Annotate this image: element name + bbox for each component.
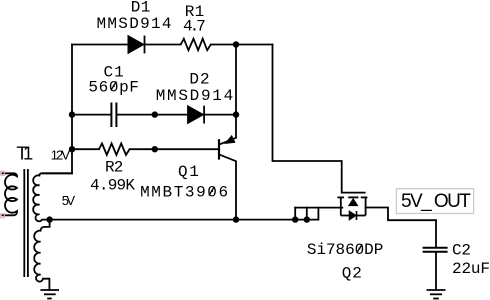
- svg-text:MMSD914: MMSD914: [97, 15, 172, 33]
- T1 primary winding: [2, 173, 18, 215]
- svg-text:22uF: 22uF: [452, 260, 490, 278]
- wire C1 row left: [72, 114, 110, 116]
- capacitor C1 right plate: [115, 103, 117, 128]
- resistor R2: [99, 144, 130, 155]
- wire Q1 collector: [220, 155, 236, 220]
- wire Q1 emitter: [220, 115, 236, 145]
- Q2 channel segment body: [348, 196, 358, 198]
- ground at transformer bar 1: [40, 289, 59, 291]
- T1 primary pin square top: [0, 171, 4, 175]
- diode D2: [188, 106, 205, 124]
- svg-text:4.99K: 4.99K: [90, 176, 135, 194]
- wire source stub 1: [294, 208, 296, 220]
- wire source line: [295, 207, 342, 209]
- wire top rail right segment: [211, 44, 273, 46]
- svg-text:Si7860DP: Si7860DP: [307, 241, 383, 259]
- Q2 body diode line left: [341, 215, 350, 217]
- Q2 gate plate: [342, 192, 366, 194]
- ground at C2 bar 2: [430, 293, 442, 295]
- wire top rail corner down to gate: [273, 45, 342, 193]
- svg-text:560pF: 560pF: [88, 78, 138, 96]
- wire 5V rail: [50, 208, 319, 220]
- capacitor C1 left plate: [110, 103, 112, 128]
- Q2 source leg: [340, 197, 342, 215]
- Q2 substrate arrow: [349, 199, 358, 206]
- wire source stub 2: [306, 208, 308, 220]
- svg-text:C2: C2: [452, 242, 471, 260]
- node dot center tap: [46, 216, 52, 222]
- wire drain to output: [366, 208, 436, 221]
- Q2 body diode: [349, 211, 356, 220]
- wire D2 row: [155, 114, 236, 116]
- node dot R2 right: [152, 146, 158, 152]
- node dot C1 right: [152, 111, 158, 117]
- node dot 12V R2 row left: [69, 146, 75, 152]
- node dot D2 cathode: [233, 111, 239, 117]
- ground at C2 bar 1: [427, 289, 446, 291]
- label box 5V_OUT: [396, 189, 473, 214]
- Q2 body diode line right: [356, 215, 365, 217]
- svg-text:D2: D2: [189, 70, 209, 88]
- diode D1: [128, 36, 145, 54]
- T1 core line left: [23, 169, 25, 277]
- node dot source stub 1: [292, 216, 298, 222]
- wire C1 row right: [117, 114, 155, 116]
- wire C2 to ground: [435, 252, 437, 289]
- T1 secondary lower winding with center tap jog: [34, 220, 49, 282]
- ground at C2 bar 3: [433, 298, 439, 300]
- capacitor C2 top plate: [423, 247, 448, 249]
- wire top rail left segment: [72, 44, 181, 46]
- svg-text:4.7: 4.7: [183, 18, 206, 36]
- wire R2 row right to Q1 base: [130, 148, 219, 150]
- wire left vertical node 12V: [71, 45, 73, 174]
- wire mid vertical top rail to D2 cathode: [235, 45, 237, 115]
- slash in Si7860DP zero: [357, 244, 363, 253]
- MOSFET Q2: [337, 193, 367, 216]
- wire output down to C2: [435, 220, 437, 247]
- svg-text:5V_ OUT: 5V_ OUT: [401, 191, 471, 212]
- node dot source stub 2: [304, 216, 310, 222]
- ground at transformer bar 2: [44, 293, 56, 295]
- svg-text:R2: R2: [105, 159, 123, 177]
- svg-text:5V: 5V: [62, 193, 76, 208]
- svg-text:MMBT3906: MMBT3906: [140, 184, 228, 202]
- Q2 drain leg: [365, 197, 367, 215]
- wire R2 row left: [72, 148, 99, 150]
- Q2 channel segment source: [337, 196, 344, 198]
- capacitor C2 bottom plate: [423, 251, 448, 253]
- svg-text:12V: 12V: [51, 147, 71, 162]
- node dot Q1 collector at rail: [233, 216, 239, 222]
- slash in 560pF zero: [111, 82, 117, 91]
- slashed zero marks: [111, 82, 362, 254]
- Q1 base bar: [218, 139, 220, 159]
- T1 core line right: [27, 169, 29, 277]
- svg-text:Q1: Q1: [178, 163, 199, 181]
- node dot top rail after R1: [233, 41, 239, 47]
- resistor R1: [181, 39, 211, 51]
- transformer T1: [2, 169, 73, 282]
- T1 secondary upper winding: [33, 173, 72, 221]
- node dot C1 row left: [69, 111, 75, 117]
- ground at transformer bar 3: [47, 298, 52, 300]
- Q2 channel segment drain: [361, 196, 368, 198]
- svg-text:Q2: Q2: [342, 265, 362, 283]
- T1 primary pin square bottom: [0, 214, 4, 218]
- transistor Q1: [219, 136, 235, 160]
- slash in MMBT3906 zero: [209, 187, 215, 196]
- svg-text:T1: T1: [16, 142, 33, 163]
- wire 12V horizontal to transformer: [43, 172, 72, 174]
- svg-text:MMSD914: MMSD914: [156, 87, 234, 105]
- Q1 emitter arrow: [225, 136, 235, 144]
- wire transformer bottom to ground: [43, 279, 49, 290]
